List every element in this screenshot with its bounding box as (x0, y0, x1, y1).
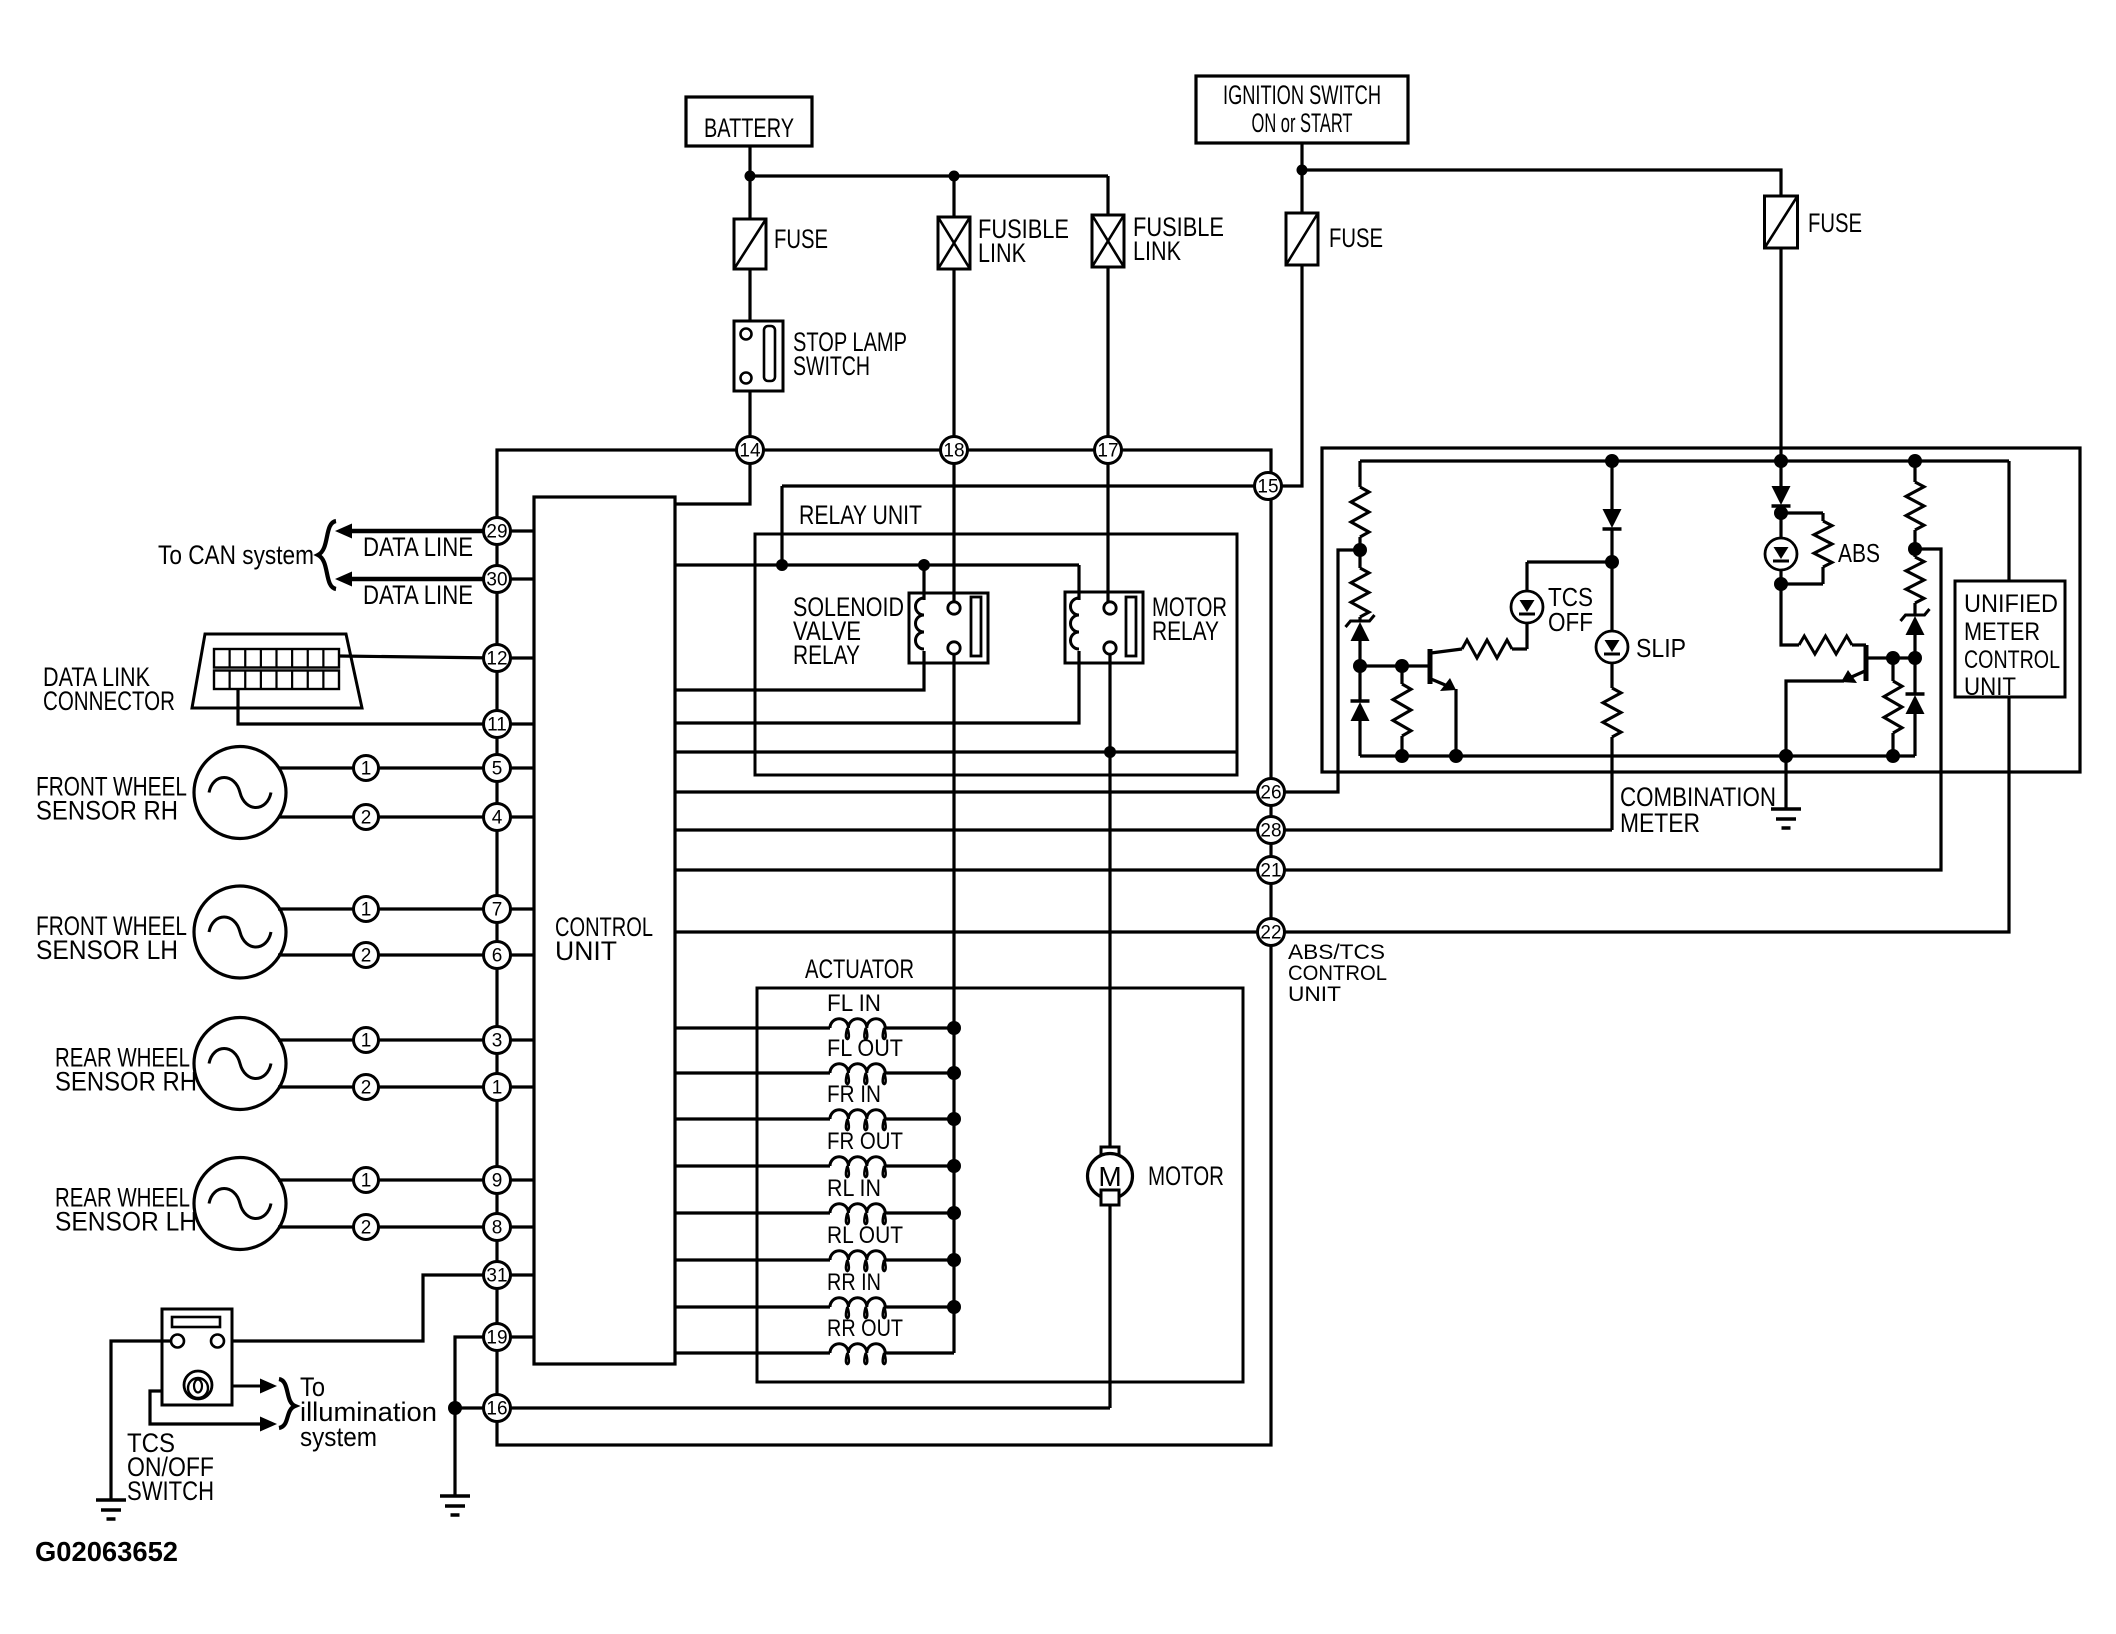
wire meter supply rail (1360, 459, 2009, 462)
svg-text:system: system (300, 1422, 377, 1452)
front wheel sensor RH (194, 747, 286, 839)
wire CAN data line 2 (352, 577, 484, 582)
svg-text:1: 1 (492, 1078, 503, 1099)
wire TCS illumination lower (150, 1391, 260, 1424)
fuse F1 (734, 219, 766, 269)
svg-text:26: 26 (1260, 783, 1281, 804)
wire pin 19 to ground (455, 1337, 484, 1496)
svg-text:6: 6 (492, 946, 503, 967)
svg-text:DATA LINE: DATA LINE (363, 580, 473, 610)
node battery junction (745, 171, 756, 182)
brace to CAN system (318, 521, 336, 589)
svg-text:UNIT: UNIT (1288, 983, 1341, 1006)
node terminal 1 (354, 897, 379, 922)
TCS on/off switch SW2 (162, 1309, 232, 1405)
node SLIP chain top (1605, 454, 1619, 468)
wire TCS illumination upper (212, 1385, 260, 1388)
svg-text:31: 31 (486, 1266, 507, 1287)
node collector junction right (1908, 651, 1922, 665)
wire ignition down (1300, 143, 1303, 170)
front wheel sensor LH (194, 886, 286, 978)
node Q2 emitter junction (1779, 749, 1793, 763)
svg-text:11: 11 (487, 715, 507, 736)
rear wheel sensor LH (194, 1158, 286, 1250)
wire front wheel sensor RH terminal 1 to pin 5 (278, 766, 497, 769)
svg-text:CONTROL: CONTROL (1288, 962, 1387, 985)
svg-text:METER: METER (1620, 808, 1700, 838)
zener diode ZD1 (1358, 617, 1361, 622)
node R1-R2 junction (1353, 543, 1367, 557)
resistor R4 (1610, 663, 1613, 688)
svg-text:RELAY UNIT: RELAY UNIT (799, 500, 922, 530)
svg-text:DATA LINE: DATA LINE (363, 532, 473, 562)
node pin 15 (1255, 473, 1282, 500)
node pin 22 (1258, 919, 1285, 946)
brace to illumination (279, 1379, 295, 1428)
svg-text:7: 7 (492, 900, 503, 921)
svg-text:14: 14 (739, 441, 761, 462)
svg-text:1: 1 (361, 1171, 372, 1192)
wire ignition junction to fuse F3 (1302, 170, 1781, 196)
indicator lamp SLIP (1610, 562, 1613, 631)
node pin 5 (484, 755, 511, 782)
wire corner down to fusible link 2 (1106, 176, 1109, 215)
wire ABS chain to Q2 base resistor (1781, 584, 1799, 645)
svg-text:15: 15 (1257, 477, 1278, 498)
resistor R1 (1358, 461, 1361, 487)
node terminal 1 (354, 1168, 379, 1193)
node pin 6 (484, 942, 511, 969)
node ignition feed junction (776, 559, 788, 571)
svg-text:SENSOR LH: SENSOR LH (55, 1207, 197, 1237)
svg-text:ABS: ABS (1838, 538, 1880, 568)
wire pin 28 to SLIP chain (1285, 828, 1613, 831)
svg-text:OFF: OFF (1548, 607, 1593, 637)
node terminal 1 (354, 1028, 379, 1053)
wire pin 14 to control unit (675, 464, 750, 505)
node Q1 emitter junction (1449, 749, 1463, 763)
solenoid valve relay K1 (909, 593, 988, 663)
svg-text:21: 21 (1260, 861, 1281, 882)
svg-text:UNIT: UNIT (1964, 673, 2016, 701)
wire battery bus to fusible links (750, 174, 1108, 177)
svg-text:19: 19 (486, 1328, 507, 1349)
wire control unit to pin 21 (675, 868, 1258, 871)
svg-text:28: 28 (1260, 821, 1281, 842)
node pin 19 (484, 1324, 511, 1351)
wire pin 26 into meter (1285, 550, 1361, 792)
solenoid coil FL OUT (675, 1071, 830, 1074)
node TCS OFF junction (1605, 555, 1619, 569)
svg-text:16: 16 (486, 1399, 507, 1420)
solenoid coil FR IN (675, 1117, 830, 1120)
resistor R2 (1358, 550, 1361, 568)
svg-text:ABS/TCS: ABS/TCS (1288, 941, 1385, 964)
svg-text:5: 5 (492, 759, 503, 780)
fuse F3 (1765, 196, 1798, 248)
node pin 17 (1095, 437, 1122, 464)
svg-text:2: 2 (361, 808, 372, 829)
node R9 bus junction (1886, 749, 1900, 763)
ground G3 (1771, 807, 1801, 811)
svg-text:MOTOR: MOTOR (1148, 1161, 1224, 1191)
svg-text:ACTUATOR: ACTUATOR (805, 954, 914, 984)
svg-text:12: 12 (486, 649, 507, 670)
wire pin 18 to solenoid relay contact (952, 464, 955, 602)
svg-text:1: 1 (361, 759, 372, 780)
svg-text:FL IN: FL IN (827, 990, 881, 1017)
node terminal 2 (354, 1215, 379, 1240)
wire front wheel sensor LH terminal 1 to pin 7 (278, 907, 497, 910)
svg-text:SENSOR RH: SENSOR RH (55, 1067, 197, 1097)
wire data link connector to pin 12 (339, 656, 497, 658)
node solenoid relay coil tap (918, 559, 930, 571)
ground G1 (96, 1498, 126, 1502)
svg-text:UNIT: UNIT (555, 936, 617, 966)
node fusible link 1 tap (949, 171, 960, 182)
fusible link FL2 (1092, 215, 1124, 267)
wire SLIP chain to pin 28 (1610, 737, 1613, 830)
svg-text:RL IN: RL IN (827, 1175, 881, 1202)
svg-text:1: 1 (361, 1031, 372, 1052)
svg-text:BATTERY: BATTERY (704, 113, 794, 143)
svg-text:CONNECTOR: CONNECTOR (43, 686, 175, 716)
svg-text:FUSE: FUSE (1808, 208, 1862, 238)
wire motor relay contact return to control unit (675, 750, 1237, 753)
wire stop lamp switch to pin 14 (748, 391, 751, 437)
ground G2 (440, 1494, 470, 1498)
wire motor to ground line (1108, 1205, 1111, 1408)
battery BAT (686, 97, 812, 146)
node terminal 2 (354, 943, 379, 968)
resistor R7 (1913, 461, 1916, 482)
wire base branch (1360, 664, 1402, 667)
svg-text:CONTROL: CONTROL (1964, 646, 2060, 674)
svg-text:SLIP: SLIP (1636, 633, 1686, 663)
stop lamp switch SW1 (734, 321, 783, 391)
wire pin 29 to control unit (497, 529, 534, 532)
wire pin 3 to control unit (497, 1038, 534, 1041)
resistor R3 (1400, 666, 1403, 684)
zener diode ZD2 (1913, 603, 1916, 616)
node ground junction (448, 1401, 462, 1415)
combination meter box (1322, 448, 2080, 772)
svg-text:SWITCH: SWITCH (793, 351, 870, 381)
wire pin 16 to motor return (455, 1406, 1110, 1409)
wire fuse F1 to stop lamp switch (748, 269, 751, 321)
solenoid coil FL IN (675, 1026, 830, 1029)
ABS/TCS control unit enclosure box (497, 450, 1271, 1445)
wire relay coil feed bus (675, 563, 1079, 566)
node pin 30 (484, 566, 511, 593)
svg-text:29: 29 (486, 522, 507, 543)
svg-text:4: 4 (492, 808, 503, 829)
node base branch junction (1395, 659, 1409, 673)
node ABS bottom junction (1774, 577, 1788, 591)
svg-text:FL OUT: FL OUT (827, 1035, 903, 1062)
wire pin 12 to control unit (497, 656, 534, 659)
wire pin 31 to TCS switch (224, 1275, 484, 1341)
svg-text:FR IN: FR IN (827, 1081, 881, 1108)
node terminal 2 (354, 1075, 379, 1100)
wire front wheel sensor LH terminal 2 to pin 6 (278, 953, 497, 956)
node pin 11 (484, 711, 511, 738)
solenoid coil FR OUT (675, 1164, 830, 1167)
resistor R6 (1799, 636, 1852, 654)
wire tap down to fusible link 1 (952, 176, 955, 217)
svg-text:1: 1 (361, 900, 372, 921)
node pin 28 (1258, 817, 1285, 844)
wire rear wheel sensor RH terminal 2 to pin 1 (278, 1085, 497, 1088)
wire pin 31 to control unit (497, 1273, 534, 1276)
wire pin 21 to meter junction (1285, 549, 1942, 870)
svg-text:M: M (1098, 1161, 1121, 1192)
wire motor relay coil feed (1077, 565, 1080, 600)
wire pin 5 to control unit (497, 766, 534, 769)
node ABS chain top (1774, 454, 1788, 468)
wire data link connector to pin 11 (238, 689, 497, 724)
node ignition junction (1297, 165, 1308, 176)
wire front wheel sensor RH terminal 2 to pin 4 (278, 815, 497, 818)
node pin 7 (484, 896, 511, 923)
svg-text:2: 2 (361, 1078, 372, 1099)
svg-text:To CAN system: To CAN system (158, 540, 314, 570)
svg-text:2: 2 (361, 946, 372, 967)
node collector junction left (1886, 651, 1900, 665)
wire pin 6 to control unit (497, 953, 534, 956)
node pin 16 (484, 1395, 511, 1422)
data link connector X1 (192, 634, 362, 708)
wire pin 15 line drop to relay bus (780, 486, 783, 565)
svg-text:IGNITION SWITCH: IGNITION SWITCH (1223, 80, 1381, 110)
svg-text:RELAY: RELAY (1152, 616, 1219, 646)
wire battery down (748, 146, 751, 176)
wire meter ground (1784, 756, 1787, 809)
unified meter control unit box (1955, 581, 2065, 697)
wire meter bottom bus (1360, 754, 1915, 757)
wire pin 30 to control unit (497, 577, 534, 580)
wire motor relay coil return to control unit (675, 651, 1079, 723)
motor relay K2 (1065, 592, 1143, 663)
transistor Q2 (1864, 643, 1866, 646)
solenoid coil RR IN (675, 1305, 830, 1308)
svg-text:18: 18 (943, 441, 964, 462)
svg-text:SWITCH: SWITCH (127, 1476, 214, 1506)
svg-text:SENSOR LH: SENSOR LH (36, 935, 178, 965)
wire pin 7 to control unit (497, 907, 534, 910)
wire motor relay contact to motor (1108, 655, 1111, 1148)
wire control unit to pin 26 (675, 790, 1258, 793)
wire Q2 emitter to bus (1786, 681, 1844, 756)
wire pin 22 to unified meter control unit (1285, 461, 2010, 932)
svg-text:2: 2 (361, 1218, 372, 1239)
wire Q2 collector (1893, 656, 1915, 659)
svg-text:30: 30 (486, 570, 507, 591)
indicator lamp TCS OFF (1525, 623, 1528, 649)
wire solenoid relay contact to actuator solenoid bus (952, 655, 955, 1354)
node pin 18 (941, 437, 968, 464)
rear wheel sensor RH (194, 1018, 286, 1110)
wire solenoid relay coil return to control unit (675, 651, 924, 690)
svg-text:G02063652: G02063652 (35, 1536, 178, 1567)
wire pin 9 to control unit (497, 1178, 534, 1181)
svg-text:RL OUT: RL OUT (827, 1222, 903, 1249)
svg-text:LINK: LINK (978, 238, 1026, 268)
resistor R8 (1913, 549, 1916, 557)
node pin 12 (484, 645, 511, 672)
diode D4 (1913, 658, 1916, 694)
transistor Q1 (1402, 664, 1428, 667)
svg-text:RR OUT: RR OUT (827, 1315, 903, 1342)
actuator box (757, 988, 1243, 1382)
wire control unit to pin 22 (675, 930, 1258, 933)
svg-text:FUSE: FUSE (1329, 223, 1383, 253)
node pin 26 (1258, 779, 1285, 806)
svg-text:9: 9 (492, 1171, 503, 1192)
motor M1 (1101, 1147, 1119, 1162)
svg-text:17: 17 (1097, 441, 1118, 462)
wire CAN data line 1 (352, 529, 484, 534)
solenoid coil RR OUT (675, 1351, 830, 1354)
wire pin 1 to control unit (497, 1085, 534, 1088)
diode D2 (1610, 461, 1613, 509)
svg-text:LINK: LINK (1133, 236, 1181, 266)
svg-text:22: 22 (1260, 923, 1281, 944)
wire fuse F2 down to pin 15 line (782, 265, 1302, 486)
diode D3 (1779, 461, 1782, 486)
wire pin 8 to control unit (497, 1225, 534, 1228)
node terminal 2 (354, 805, 379, 830)
node ABS top junction (1774, 506, 1788, 520)
wire fusible link FL1 to pin 18 (952, 269, 955, 437)
node pin 9 (484, 1167, 511, 1194)
node pin 14 (737, 437, 764, 464)
svg-text:3: 3 (492, 1031, 503, 1052)
wire rear wheel sensor LH terminal 1 to pin 9 (278, 1178, 497, 1181)
svg-text:FUSE: FUSE (774, 224, 828, 254)
node zener junction (1353, 659, 1367, 673)
wire pin 11 to control unit (497, 722, 534, 725)
diode D1 (1358, 666, 1361, 701)
resistor R5 parallel (1781, 511, 1823, 514)
solenoid coil RL IN (675, 1211, 830, 1214)
node pin 3 (484, 1027, 511, 1054)
svg-text:SENSOR RH: SENSOR RH (36, 796, 178, 826)
wire Q1 emitter to bus (1454, 689, 1457, 756)
node right chain top (1908, 454, 1922, 468)
node terminal 1 (354, 756, 379, 781)
node R7 junction (1908, 542, 1922, 556)
ignition switch box (1196, 76, 1408, 143)
node pin 1 (484, 1074, 511, 1101)
wire pin 17 to motor relay contact (1106, 464, 1109, 602)
node R3 bus junction (1395, 749, 1409, 763)
wire solenoid relay coil feed (922, 565, 925, 600)
svg-text:RELAY: RELAY (793, 640, 860, 670)
svg-text:ON or START: ON or START (1252, 108, 1353, 138)
wire rear wheel sensor RH terminal 1 to pin 3 (278, 1038, 497, 1041)
node pin 4 (484, 804, 511, 831)
resistor R9 (1891, 658, 1894, 681)
wire rear wheel sensor LH terminal 2 to pin 8 (278, 1225, 497, 1228)
svg-text:UNIFIED: UNIFIED (1964, 590, 2058, 618)
fusible link FL1 (938, 217, 970, 269)
wire fuse F3 to combination meter rail (1779, 248, 1782, 461)
wire pin 19 to control unit (497, 1335, 534, 1338)
svg-text:8: 8 (492, 1218, 503, 1239)
wire battery to fuse F1 (748, 176, 751, 219)
wire control unit to pin 28 (675, 828, 1258, 831)
wire ignition to fuse F2 (1300, 170, 1303, 213)
fuse F2 (1286, 213, 1318, 265)
indicator lamp ABS (1779, 513, 1782, 538)
svg-text:RR IN: RR IN (827, 1269, 881, 1296)
control unit box (534, 497, 675, 1364)
svg-text:FR OUT: FR OUT (827, 1128, 903, 1155)
relay unit box (755, 534, 1237, 775)
wire fusible link FL2 to pin 17 (1106, 267, 1109, 437)
node pin 29 (484, 518, 511, 545)
node motor line junction (1104, 746, 1116, 758)
node pin 31 (484, 1262, 511, 1289)
solenoid coil RL OUT (675, 1258, 830, 1261)
wire TCS switch to ground (111, 1341, 171, 1500)
wire pin 4 to control unit (497, 815, 534, 818)
node pin 21 (1258, 857, 1285, 884)
svg-text:METER: METER (1964, 618, 2040, 646)
node pin 8 (484, 1214, 511, 1241)
